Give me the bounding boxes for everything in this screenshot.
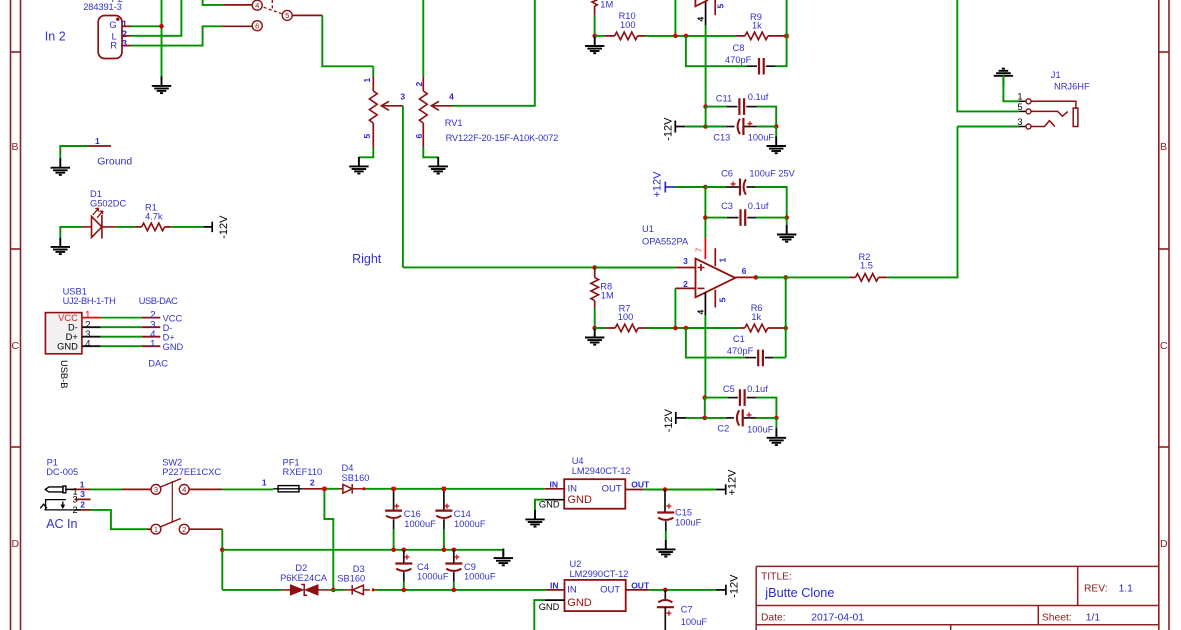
U1 pin 4 line: [704, 293, 706, 315]
ground below R8: [585, 328, 604, 345]
svg-text:2: 2: [310, 478, 315, 488]
D4 cathode end dot: [362, 487, 365, 490]
svg-text:U4: U4: [572, 456, 584, 466]
U3 pin 4 line: [705, 2, 707, 25]
wire junction to R7: [595, 327, 606, 329]
wire C2 right to ground: [757, 418, 777, 429]
U1 pin 3 stub: [676, 267, 696, 269]
junction output/feedback: [783, 275, 788, 280]
wire C5-C2 left vertical: [704, 398, 706, 418]
U1 pin 2 stub: [675, 287, 695, 289]
U2 body box: [565, 580, 626, 611]
switch SW1 contact circle 5: [282, 10, 292, 20]
svg-text:100: 100: [620, 20, 636, 30]
ground below U4 GND: [525, 510, 544, 527]
wire U3 pin4 down to C11: [705, 25, 707, 106]
svg-text:U1: U1: [642, 224, 654, 234]
svg-text:6: 6: [255, 21, 259, 30]
wire C8 right up to R9 junction: [776, 36, 787, 66]
wire R1 to -12V flag: [171, 226, 203, 228]
wire R9 junction up to top: [786, 0, 788, 36]
svg-text:USB-DAC: USB-DAC: [139, 296, 178, 306]
svg-text:C2: C2: [717, 423, 729, 433]
connector P2 body: [98, 16, 122, 59]
wire junction to U1 pin3: [595, 267, 676, 269]
svg-text:100uF: 100uF: [748, 132, 775, 142]
svg-text:C4: C4: [417, 562, 429, 572]
U4 body box: [564, 479, 625, 509]
junction C13 right: [774, 124, 779, 129]
svg-text:DAC: DAC: [148, 359, 168, 369]
wire SW2 contact4 to fuse: [189, 488, 223, 490]
svg-text:-12V: -12V: [663, 117, 675, 141]
svg-text:3: 3: [122, 39, 127, 50]
svg-text:SB160: SB160: [342, 473, 370, 483]
capacitor C15 polarized vertical: [657, 490, 674, 532]
svg-text:RV1: RV1: [445, 118, 463, 128]
svg-text:OUT: OUT: [631, 479, 650, 489]
svg-text:-12V: -12V: [663, 408, 675, 432]
RV1 right wiper arrow pin4: [431, 101, 453, 110]
wire C6-C3 left vertical: [704, 187, 706, 238]
wire C11/C13 left vertical: [705, 107, 707, 127]
svg-text:IN: IN: [550, 479, 559, 489]
potentiometer RV1 right section pin2 lead from top: [422, 0, 424, 77]
wire cap mid rail: [222, 550, 503, 556]
svg-text:1.5: 1.5: [860, 261, 873, 271]
svg-text:VCC: VCC: [58, 313, 78, 323]
P2 pin stubs: [122, 26, 131, 45]
switch SW1 dashed link to upper pole: [271, 0, 273, 10]
svg-text:LM2940CT-12: LM2940CT-12: [572, 466, 631, 476]
capacitor C14 polarized vertical: [435, 491, 452, 530]
svg-text:1/1: 1/1: [1086, 613, 1101, 624]
svg-text:DC-005: DC-005: [46, 467, 78, 477]
wire R10 to R9 through junctions: [645, 35, 736, 37]
wire SW2 contact2 down to D2 row: [189, 528, 222, 530]
capacitor C6 polarized: [726, 179, 756, 196]
svg-text:+12V: +12V: [652, 171, 664, 198]
wire junction to D4 anode: [327, 488, 340, 490]
wire output to R2: [756, 276, 850, 278]
svg-text:C8: C8: [733, 43, 745, 53]
fuse PF1 body: [273, 486, 304, 492]
junction C3 left: [703, 215, 708, 220]
J1 pin5 switch contact: [1031, 111, 1068, 116]
svg-text:1M: 1M: [601, 290, 614, 300]
J1 pin1 open circle: [1026, 99, 1031, 104]
wire RV1 wiper4 right and up to top: [453, 0, 535, 106]
wire P2 pin3 to switch contact 6: [131, 26, 222, 45]
wire C16 bottom to rail: [393, 530, 395, 550]
potentiometer RV1 right section pin6 lead: [422, 123, 424, 147]
svg-text:OUT: OUT: [602, 484, 622, 495]
sheet frame right border: [1159, 0, 1169, 630]
svg-text:R: R: [110, 41, 117, 52]
wire from top to SW1 contact 4: [203, 0, 224, 5]
capacitor C8: [747, 58, 776, 75]
junction U2 out / C7: [663, 588, 668, 593]
capacitor C13 polarized: [726, 118, 757, 135]
svg-text:1: 1: [150, 339, 156, 350]
resistor R2: [850, 274, 888, 282]
capacitor C7 polarized vertical flipped: [657, 590, 674, 630]
svg-text:2017-04-01: 2017-04-01: [811, 613, 864, 624]
svg-text:1: 1: [95, 136, 100, 146]
svg-text:NRJ6HF: NRJ6HF: [1054, 82, 1090, 92]
junction P2 pin1: [159, 24, 164, 29]
svg-text:P1: P1: [47, 457, 58, 467]
svg-text:2: 2: [73, 505, 78, 515]
svg-text:1.1: 1.1: [1119, 584, 1134, 595]
svg-text:4.7k: 4.7k: [145, 211, 163, 221]
junction C9 bottom: [452, 588, 457, 593]
junction U1 output: [754, 275, 759, 280]
svg-text:U2: U2: [570, 559, 582, 569]
junction B C8 loop: [684, 34, 689, 39]
svg-text:0.1uf: 0.1uf: [747, 384, 768, 394]
USB wire row1 VCC: [82, 317, 160, 319]
J1 pin3 open circle: [1026, 124, 1031, 129]
U2 pin IN stub: [546, 589, 564, 591]
LED D1: [82, 208, 117, 238]
title block box: [756, 566, 1159, 630]
svg-text:USB-B: USB-B: [59, 360, 69, 388]
wire C11 left lead: [706, 106, 727, 108]
svg-text:UJ2-BH-1-TH: UJ2-BH-1-TH: [63, 296, 116, 306]
junction C4 bottom: [402, 588, 407, 593]
svg-text:1: 1: [262, 478, 267, 488]
svg-text:284391-3: 284391-3: [83, 2, 122, 12]
wire C3 right: [756, 218, 787, 225]
ground below R5 junction: [585, 37, 604, 54]
switch SW1 contact circle 4: [252, 0, 262, 10]
svg-text:+12V: +12V: [727, 469, 739, 496]
svg-text:5: 5: [718, 297, 728, 302]
svg-text:2: 2: [414, 82, 424, 87]
capacitor C11: [726, 98, 757, 115]
wire from top to J1 pin5: [957, 0, 1018, 111]
U4 pin IN stub: [545, 488, 565, 490]
wire U1 pin2 down to feedback node: [674, 288, 676, 328]
wire D2 row left from SW2: [222, 589, 282, 591]
wire C8 loop left: [686, 36, 747, 66]
USB wire row4 GND: [82, 345, 160, 347]
wire C13 right to ground: [757, 127, 776, 138]
SW2 contact circle 1: [151, 524, 161, 534]
wire jog from fuse junction down to D2 row: [324, 491, 333, 590]
svg-text:4: 4: [85, 339, 91, 350]
svg-text:D-: D-: [68, 322, 78, 332]
svg-text:C3: C3: [721, 201, 733, 211]
wire C1 loop left: [686, 328, 745, 358]
svg-text:C: C: [12, 340, 20, 352]
TVS diode D2: [282, 585, 330, 596]
svg-text:1000uF: 1000uF: [464, 572, 496, 582]
U4 OUT wire: [625, 489, 644, 491]
svg-text:IN: IN: [550, 580, 559, 590]
svg-text:USB1: USB1: [63, 287, 87, 297]
svg-text:D: D: [1160, 538, 1168, 550]
junction SW2 return to cap mid rail: [220, 548, 225, 553]
wire junction to R10: [595, 35, 605, 37]
svg-text:D+: D+: [163, 333, 175, 343]
wire D3 to C4 C9 and U2: [375, 589, 547, 591]
resistor R5 1M fragment at top: [592, 0, 597, 7]
wire stub to SW1 contact 6: [222, 25, 252, 27]
svg-text:OUT: OUT: [631, 580, 650, 590]
svg-text:J1: J1: [1051, 70, 1061, 80]
wire RV1 wiper3 down to Right node: [402, 106, 404, 268]
J1 pin1 wire to body: [1031, 101, 1076, 108]
USB wire row2 D-: [82, 326, 160, 328]
svg-text:Ground: Ground: [97, 156, 132, 168]
svg-text:4: 4: [182, 485, 186, 494]
svg-text:SB160: SB160: [337, 574, 365, 584]
svg-text:In 2: In 2: [45, 30, 66, 44]
op-amp U3 fragment at top edge: [695, 0, 708, 6]
svg-text:C15: C15: [675, 508, 692, 518]
P1 barrel jack symbol: [45, 486, 66, 493]
svg-text:B: B: [12, 141, 19, 153]
svg-text:1k: 1k: [752, 21, 762, 31]
svg-text:3: 3: [73, 495, 78, 505]
svg-text:IN: IN: [567, 585, 577, 596]
svg-text:D+: D+: [66, 332, 78, 342]
capacitor C2 polarized: [726, 409, 757, 426]
svg-text:2: 2: [80, 500, 85, 510]
wire D1 to R1: [116, 226, 135, 228]
capacitor C3: [727, 209, 756, 226]
svg-text:1000uF: 1000uF: [404, 519, 436, 529]
svg-text:IN: IN: [568, 484, 578, 495]
svg-text:G502DC: G502DC: [90, 199, 126, 209]
SW2 contact circle 4: [179, 485, 189, 495]
svg-text:D: D: [12, 538, 20, 550]
svg-text:C1: C1: [733, 334, 745, 344]
wire +12V to C6 junction: [675, 186, 705, 188]
junction R8 top: [592, 265, 597, 270]
junction C4 top: [402, 548, 407, 553]
svg-text:RV122F-20-15F-A10K-0072: RV122F-20-15F-A10K-0072: [446, 133, 559, 143]
svg-text:D3: D3: [353, 564, 365, 574]
ground below C3: [777, 225, 796, 242]
svg-text:100uF: 100uF: [681, 617, 708, 627]
svg-text:C16: C16: [404, 509, 421, 519]
wire R2 to output jack: [887, 127, 957, 278]
svg-text:1: 1: [1017, 91, 1022, 101]
svg-text:5: 5: [285, 11, 289, 20]
P1 pin1 lead: [66, 488, 75, 490]
svg-text:100uF 25V: 100uF 25V: [749, 168, 795, 178]
svg-text:1: 1: [718, 258, 728, 263]
svg-text:-12V: -12V: [218, 215, 230, 239]
svg-text:REV:: REV:: [1084, 584, 1108, 595]
svg-text:2: 2: [182, 525, 186, 534]
svg-text:470pF: 470pF: [727, 346, 754, 356]
U1 pin 6 output stub: [735, 276, 756, 278]
wire junction to D3: [330, 589, 345, 591]
wire fuse to D4 junction: [304, 488, 323, 490]
capacitor C1: [745, 350, 774, 367]
wire Ground flag to ground symbol: [60, 146, 88, 159]
inverted ground above J1 pin1: [994, 69, 1013, 86]
svg-text:4: 4: [696, 17, 706, 22]
svg-text:GND: GND: [539, 500, 560, 510]
connector USB1 body: [45, 313, 82, 354]
wire C11 right down to C13: [757, 107, 776, 127]
svg-text:100uF: 100uF: [747, 424, 774, 434]
U1 pin 1 stub: [714, 248, 716, 266]
U1 minus input mark: [698, 287, 705, 289]
svg-text:D1: D1: [90, 189, 102, 199]
svg-text:1M: 1M: [600, 0, 613, 9]
svg-text:1000uF: 1000uF: [454, 519, 486, 529]
junction R6 right: [783, 326, 788, 331]
SW2 mechanical link: [171, 481, 173, 522]
svg-text:5: 5: [1017, 102, 1022, 112]
svg-text:3: 3: [80, 489, 85, 499]
svg-text:C14: C14: [454, 509, 471, 519]
wire R7 to feedback junctions: [647, 327, 739, 329]
wire U1 pin4 down to C5: [704, 315, 706, 398]
switch SW1 contact circle 6: [252, 21, 262, 31]
capacitor C4 polarized vertical: [395, 550, 412, 582]
junction A U3 pin2 node: [673, 34, 678, 39]
wire C15 to ground: [665, 531, 667, 540]
junction R9 right: [785, 34, 789, 38]
svg-text:OPA552PA: OPA552PA: [642, 236, 689, 246]
junction C11 left: [703, 104, 708, 109]
svg-text:PF1: PF1: [283, 457, 300, 467]
wire C3 left lead: [705, 217, 726, 219]
junction R5/R10/ground: [592, 34, 597, 39]
SW2 contact circle 3: [151, 485, 161, 495]
U1 pin 5 stub: [714, 290, 716, 308]
wire C4 bottom to D2 row: [403, 582, 405, 590]
wire C2 left lead: [705, 417, 726, 419]
J1 pin3 stub from R2 wire: [958, 126, 1019, 128]
svg-text:7: 7: [694, 247, 704, 252]
junction C13 left: [703, 124, 708, 129]
svg-text:C11: C11: [716, 93, 732, 103]
wire ground to D1 anode: [60, 227, 81, 238]
svg-text:-12V: -12V: [728, 574, 740, 598]
svg-text:3: 3: [154, 485, 158, 494]
potentiometer RV1 right section body: [419, 91, 427, 123]
svg-text:D4: D4: [342, 463, 354, 473]
svg-text:4: 4: [255, 1, 259, 10]
svg-text:OUT: OUT: [600, 585, 620, 596]
svg-text:GND: GND: [539, 602, 560, 612]
wire C14 bottom to rail: [443, 530, 445, 550]
sheet frame left border: [11, 0, 21, 630]
svg-text:jButte Clone: jButte Clone: [764, 586, 834, 600]
wire SW1 contact 5 to RV1 pin1: [292, 14, 322, 16]
svg-text:AC In: AC In: [46, 517, 77, 531]
svg-text:1k: 1k: [751, 312, 761, 322]
capacitor C9 polarized vertical: [445, 550, 462, 582]
U1 plus input mark: [698, 264, 705, 271]
svg-text:1: 1: [154, 525, 158, 534]
svg-text:RXEF110: RXEF110: [283, 467, 323, 477]
wire R8 to R7 junction: [594, 308, 596, 328]
svg-text:0.1uf: 0.1uf: [748, 92, 769, 102]
U1 pin 7 line: [704, 238, 706, 260]
svg-text:Date:: Date:: [761, 613, 786, 624]
svg-text:0.1uf: 0.1uf: [748, 201, 769, 211]
junction C16 top: [392, 487, 396, 491]
wire ground to J1 pin1: [1003, 75, 1018, 102]
junction C3 right: [784, 215, 789, 220]
svg-text:6: 6: [742, 266, 747, 276]
wire stub to SW1 contact 4: [223, 4, 252, 6]
ground below RV1 right: [429, 157, 448, 174]
svg-text:TITLE:: TITLE:: [761, 572, 792, 583]
D3 anode end dot: [372, 588, 375, 591]
potentiometer RV1 left section body: [369, 91, 377, 123]
resistor R10: [605, 32, 645, 40]
U2 GND pin wire: [545, 599, 565, 601]
svg-text:100: 100: [618, 312, 634, 322]
P1 pin2 lead: [75, 509, 82, 511]
SW2 lever top pole: [160, 479, 181, 487]
switch SW1 lever dashed link: [264, 7, 282, 13]
wire vertical from top to ground through junction: [161, 0, 163, 77]
power symbol -12V at C13: [675, 121, 685, 133]
ground below C15: [656, 540, 675, 557]
potentiometer RV1 left section pin1 lead: [372, 66, 374, 77]
svg-text:3: 3: [1017, 117, 1022, 127]
junction C2 left: [703, 416, 708, 421]
svg-text:GND: GND: [567, 597, 592, 609]
resistor R6: [739, 324, 786, 332]
power symbol +12V at U4 out: [716, 484, 726, 494]
ground below P2: [152, 76, 171, 93]
resistor R7: [606, 324, 647, 332]
power symbol -12V at C2: [676, 412, 686, 424]
wire C5 left lead: [705, 397, 728, 399]
wire P2 pin2 to vertical: [131, 0, 181, 36]
svg-text:SW2: SW2: [162, 457, 182, 467]
connector P2 pin1 marker dot: [116, 18, 119, 21]
ground below C2: [767, 428, 786, 445]
ground below C13: [767, 137, 786, 154]
capacitor C5: [728, 389, 757, 406]
svg-text:100uF: 100uF: [675, 518, 702, 528]
wire C5 right down to C2: [757, 398, 777, 418]
junction C2 right: [774, 416, 779, 421]
ground symbol for Ground flag: [51, 158, 70, 175]
svg-text:3: 3: [683, 256, 688, 266]
svg-text:4: 4: [449, 91, 454, 101]
wire R5 to junction: [594, 16, 596, 36]
wire D4 to C16 C14 and U4: [366, 488, 545, 490]
J1 pin3 switch contact: [1031, 121, 1055, 127]
diode D4: [339, 484, 363, 494]
resistor R8 vertical: [591, 268, 599, 308]
wire Right node to pin3: from RV1 wiper: [403, 266, 595, 268]
U3 pin 5 stub: [714, 0, 716, 15]
U2 OUT wire: [626, 589, 649, 591]
svg-text:C6: C6: [721, 168, 733, 178]
svg-text:5: 5: [715, 4, 725, 9]
wire C6 left lead: [705, 186, 725, 188]
junction pin2/feedback: [673, 326, 678, 331]
svg-text:Sheet:: Sheet:: [1042, 613, 1072, 624]
resistor R1: [135, 223, 171, 231]
wire C9 bottom to D2 row: [453, 582, 455, 590]
